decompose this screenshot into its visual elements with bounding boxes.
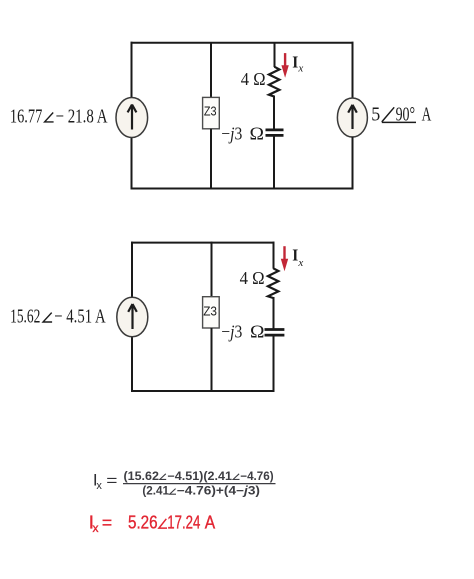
svg-text:−j3: −j3 [221,123,242,143]
wire: RC branch top stub (circuit 1) [274,42,276,67]
svg-text:−4.76)+(4−j3): −4.76)+(4−j3) [177,486,260,498]
label: 15.62 angle -4.51 A [10,305,106,327]
svg-text:15.62: 15.62 [10,305,40,327]
capacitor -j3 ohm (circuit 1) plates [266,130,284,136]
equation denominator: (2.41 angle -4.76)+(4-j3) [142,486,260,498]
wire: capacitor to bottom rail (circuit 1) [273,135,275,189]
label: -j3 ohm (circuit 1) [221,123,264,143]
svg-text:x: x [96,480,102,492]
wire: top rail of circuit 1 [131,42,354,44]
svg-text:4 Ω: 4 Ω [240,268,265,288]
current source I2 (5A) ellipse [337,98,367,137]
resistor 4ohm (circuit 2) zigzag [268,268,279,298]
current arrow Ix (circuit 2, red) [281,246,288,271]
wire: top rail of circuit 2 [131,242,275,244]
equation LHS: Ix = [93,470,118,492]
wire: right branch top stub (circuit 2) [273,242,275,269]
svg-text:x: x [93,521,99,535]
current source I1 (16.77A) ellipse [116,98,148,138]
wire: Z3 branch upper segment (circuit 2) [211,242,213,298]
label: 5 angle 90deg A [371,103,431,125]
svg-text:−j3: −j3 [221,321,242,341]
wire: right branch upper segment (circuit 1) [352,42,354,99]
svg-text:Z3: Z3 [203,304,217,319]
svg-text:− 21.8 A: − 21.8 A [56,105,108,127]
svg-text:5.26: 5.26 [128,512,158,533]
svg-text:Z3: Z3 [204,103,217,118]
svg-text:4 Ω: 4 Ω [241,69,266,89]
impedance Z3 box (circuit 2) [203,297,220,328]
label: 4 ohm (circuit 2) [240,268,265,288]
svg-text:x: x [297,63,303,75]
wire: between resistor and capacitor (circuit 2) [273,297,275,330]
svg-text:x: x [297,257,303,269]
wire: between resistor and capacitor (circuit 1) [273,96,275,130]
svg-text:(15.62: (15.62 [124,471,159,483]
svg-text:A: A [422,103,432,125]
wire: left branch upper segment (circuit 1) [131,42,133,98]
svg-text:=: = [102,513,112,533]
svg-text:17.24: 17.24 [167,512,200,533]
svg-text:Ω: Ω [250,321,265,341]
wire: bottom rail of circuit 1 [131,188,354,190]
label: -j3 ohm (circuit 2) [221,321,264,341]
label: 4 ohm (circuit 1) [241,69,266,89]
label: Ix bold (circuit 2) [292,245,303,269]
svg-text:(2.41: (2.41 [142,486,169,498]
svg-text:90°: 90° [396,103,416,125]
impedance Z3 box (circuit 1) [203,97,220,128]
wire: Z3 branch upper segment (circuit 1) [210,42,212,98]
wire: Z3 branch lower segment (circuit 2) [211,328,213,392]
equation numerator: (15.62 angle -4.51)(2.41 angle -4.76) [124,471,274,483]
svg-text:−4.51)(2.41: −4.51)(2.41 [167,471,232,483]
svg-text:16.77: 16.77 [10,105,42,127]
current arrow Ix (circuit 1, red) [281,53,288,78]
resistor 4ohm (circuit 1) zigzag [269,67,280,97]
label: 16.77 angle -21.8 A [10,105,108,127]
wire: right branch lower segment (circuit 1) [352,137,354,190]
label: Ix bold (circuit 1) [292,52,303,74]
svg-text:− 4.51 A: − 4.51 A [54,305,106,327]
current source I3 (15.62A) ellipse [117,297,148,337]
capacitor -j3 ohm (circuit 2) plates [265,330,285,336]
wire: capacitor to bottom rail (circuit 2) [273,335,275,392]
wire: left branch upper segment (circuit 2) [131,242,133,298]
equation fraction bar [123,483,276,485]
svg-text:5: 5 [371,103,380,125]
svg-text:Ω: Ω [250,123,265,143]
wire: bottom rail of circuit 2 [131,390,275,392]
result: Ix = 5.26 angle 17.24 A (red) [89,512,216,536]
svg-text:−4.76): −4.76) [240,471,273,483]
wire: left branch lower segment (circuit 1) [131,137,133,190]
wire: left branch lower segment (circuit 2) [131,336,133,392]
wire: Z3 branch lower segment (circuit 1) [210,129,212,190]
svg-text:A: A [205,512,216,533]
svg-text:=: = [106,472,117,489]
